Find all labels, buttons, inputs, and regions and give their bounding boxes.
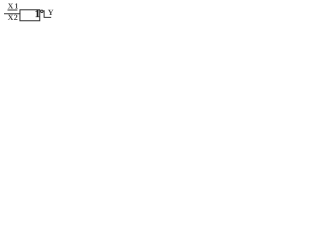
svg-text:1: 1 xyxy=(35,9,40,20)
wire xyxy=(8,9,18,11)
svg-text:X1: X1 xyxy=(8,2,20,11)
gate U1 (NOR, IEC box) xyxy=(20,10,40,21)
svg-text:X2: X2 xyxy=(8,13,19,22)
wire xyxy=(44,10,51,17)
svg-text:Y: Y xyxy=(48,8,54,17)
inversion bubble xyxy=(41,10,43,12)
wire xyxy=(4,13,20,15)
